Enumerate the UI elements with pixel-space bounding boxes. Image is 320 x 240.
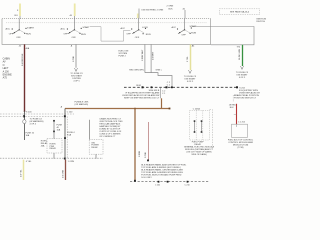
fuse block dashed edge right xyxy=(210,110,213,149)
svg-text:S 204: S 204 xyxy=(26,112,32,114)
svg-text:RU: RU xyxy=(15,15,19,17)
svg-text:ACC: ACC xyxy=(61,28,66,31)
svg-text:(OR MAXI AD): (OR MAXI AD) xyxy=(75,103,89,106)
svg-text:4 OF 5: 4 OF 5 xyxy=(187,81,194,83)
ELEC IGN note text xyxy=(119,51,129,58)
svg-text:RUN: RUN xyxy=(191,33,196,35)
svg-text:3 YEL: 3 YEL xyxy=(187,56,189,62)
ignition switch wafer S1 (ACC/OFF/RUN/START contacts) xyxy=(6,19,35,40)
left text column xyxy=(3,58,13,80)
svg-text:OFF: OFF xyxy=(16,37,21,39)
TCM box xyxy=(228,124,254,149)
svg-text:RUN: RUN xyxy=(146,34,151,36)
svg-text:4 OF 5: 4 OF 5 xyxy=(73,81,80,83)
svg-text:POSITION SWITCH CT: POSITION SWITCH CT xyxy=(234,98,257,100)
svg-text:RED GRN WHL: RED GRN WHL xyxy=(129,69,145,71)
svg-text:ACC: ACC xyxy=(121,27,126,30)
svg-text:SDM: SDM xyxy=(136,85,141,87)
fuse block text block xyxy=(99,118,123,139)
svg-text:ACC: ACC xyxy=(6,28,11,31)
fuse symbol on wire xyxy=(23,120,26,124)
ignition switch wafer S3 (ACC/LOCK/OFF/RUN contacts) xyxy=(121,19,151,40)
red wire bottom x=65 xyxy=(62,160,74,180)
mechanical link dashed line xyxy=(6,22,207,24)
svg-text:OFF: OFF xyxy=(64,34,69,36)
svg-text:BLK: BLK xyxy=(230,107,234,109)
svg-text:1 BRN WHT: 1 BRN WHT xyxy=(142,49,144,61)
wire (PNK) to fuse C3 with arrow xyxy=(70,44,83,82)
svg-text:RELAY: RELAY xyxy=(50,147,57,150)
svg-text:C 205A: C 205A xyxy=(193,108,201,111)
wire feed D x=185 xyxy=(183,8,186,18)
fuse block C100 dashed edges xyxy=(0,114,74,159)
wire feed C x=139 xyxy=(137,5,174,18)
svg-text:4 OF 5: 4 OF 5 xyxy=(239,77,246,79)
wire (BRN) from connector C1 to junction and bulkhead terminal xyxy=(61,98,171,181)
svg-text:OF 5 SERIES CT: OF 5 SERIES CT xyxy=(99,136,116,138)
svg-text:OFF: OFF xyxy=(72,37,77,39)
svg-text:0.8 ORN: 0.8 ORN xyxy=(62,169,64,178)
wires x=144.9 and x=151.1 with elbow to connector xyxy=(129,44,172,86)
svg-text:OFF: OFF xyxy=(9,34,14,36)
svg-text:4 OF 4: 4 OF 4 xyxy=(30,123,37,125)
svg-text:15A: 15A xyxy=(67,134,71,137)
wire 40A (RED/BLK) from switch to splice S204 and fuse F16 xyxy=(19,44,44,140)
svg-text:10A: 10A xyxy=(26,134,30,137)
svg-text:S-10 ONLY: S-10 ONLY xyxy=(141,177,152,179)
bottom text block xyxy=(141,164,187,180)
svg-text:RUN: RUN xyxy=(26,34,31,36)
wire 974 (DK GRN) to fuse C3 with arrow xyxy=(236,45,249,79)
svg-text:LOCK: LOCK xyxy=(142,27,148,29)
svg-text:START: START xyxy=(83,26,91,29)
svg-text:OFF: OFF xyxy=(135,37,140,39)
wire (PNK) to connector terminal xyxy=(145,122,149,161)
bulkhead connector dashed line y=87.3 xyxy=(124,85,246,89)
svg-text:5 PNK: 5 PNK xyxy=(145,151,147,158)
svg-text:18 DK GRN: 18 DK GRN xyxy=(239,49,241,60)
ignition switch wafer S4 (ACC/OFF/RUN/START contacts) xyxy=(172,19,198,37)
wire feed A (yellow) x=20 xyxy=(15,4,21,19)
svg-text:(TCM): (TCM) xyxy=(238,147,244,149)
svg-text:C 202: C 202 xyxy=(155,185,160,187)
wire x=89.5 to second relay xyxy=(89,120,91,140)
svg-text:C 1 205: C 1 205 xyxy=(238,121,246,123)
fuse wire x=54 to horn relay xyxy=(53,120,62,139)
top right text block xyxy=(234,90,261,100)
fusible link note xyxy=(75,102,89,107)
svg-text:3 PNK: 3 PNK xyxy=(73,55,75,62)
red wire to TCM xyxy=(229,104,246,124)
svg-text:SWITCH: SWITCH xyxy=(256,21,265,23)
svg-text:GRN L: GRN L xyxy=(156,69,163,71)
svg-text:OFF: OFF xyxy=(127,34,132,36)
svg-text:FUSE 2: FUSE 2 xyxy=(119,56,127,58)
svg-text:40A: 40A xyxy=(26,47,30,50)
svg-text:1 ORN: 1 ORN xyxy=(68,161,75,163)
svg-text:ACC: ACC xyxy=(172,26,177,29)
connector bracket C2/C1 xyxy=(160,88,166,98)
svg-text:RELAY: RELAY xyxy=(91,146,98,149)
svg-text:A75: A75 xyxy=(3,77,8,80)
svg-text:3 BRN: 3 BRN xyxy=(139,150,141,157)
note dashed box top right xyxy=(219,9,259,15)
ignition switch label xyxy=(256,19,266,24)
svg-text:SIDE OF DASH): SIDE OF DASH) xyxy=(191,153,207,156)
yellow wire bottom left x=23.5 xyxy=(21,160,33,180)
text block mid (right aligned) xyxy=(122,90,160,100)
svg-text:C 100: C 100 xyxy=(67,112,73,114)
wire from cluster4 START to right edge xyxy=(192,27,254,45)
svg-text:2 ORN: 2 ORN xyxy=(167,5,174,7)
wire feed B (yellow) x=74.7 xyxy=(70,4,75,19)
svg-text:4 YEL: 4 YEL xyxy=(26,161,32,163)
svg-text:C 210: C 210 xyxy=(185,185,190,187)
svg-text:RUN: RUN xyxy=(81,34,86,36)
svg-text:IGN SW FEED 2 ORN: IGN SW FEED 2 ORN xyxy=(142,10,164,12)
svg-text:SEE PAGE 8A-26-0: SEE PAGE 8A-26-0 xyxy=(230,10,250,13)
svg-text:10A: 10A xyxy=(57,129,61,132)
svg-text:0.8 WHT: 0.8 WHT xyxy=(152,51,154,60)
svg-text:START: START xyxy=(27,26,35,29)
svg-text:BLK: BLK xyxy=(169,8,174,10)
wire (YEL) to fuse C3 with arrow xyxy=(184,44,197,82)
ignition switch wafer S2 (ACC/OFF/RUN/START contacts) xyxy=(61,19,91,40)
fuse block bottom dashed line xyxy=(0,157,103,159)
svg-text:0.8 YEL: 0.8 YEL xyxy=(21,169,23,177)
second relay dashed box xyxy=(89,140,103,159)
ignition switch box outline xyxy=(2,19,211,45)
bottom dashed connector line xyxy=(130,181,209,187)
wire (ORN) through fuse block with fuse F4 xyxy=(64,109,76,160)
svg-text:OFF: OFF xyxy=(182,34,187,36)
svg-text:RELAY: RELAY xyxy=(194,143,201,146)
C205A connector dashed box xyxy=(184,108,215,157)
svg-text:0.8 RED BLK: 0.8 RED BLK xyxy=(22,53,24,66)
horn relay dashed box xyxy=(41,139,62,159)
svg-text:KEEP ON SHIFTING INTERLOCK CT: KEEP ON SHIFTING INTERLOCK CT xyxy=(124,97,160,99)
wire from cluster2 START contact xyxy=(90,27,131,41)
